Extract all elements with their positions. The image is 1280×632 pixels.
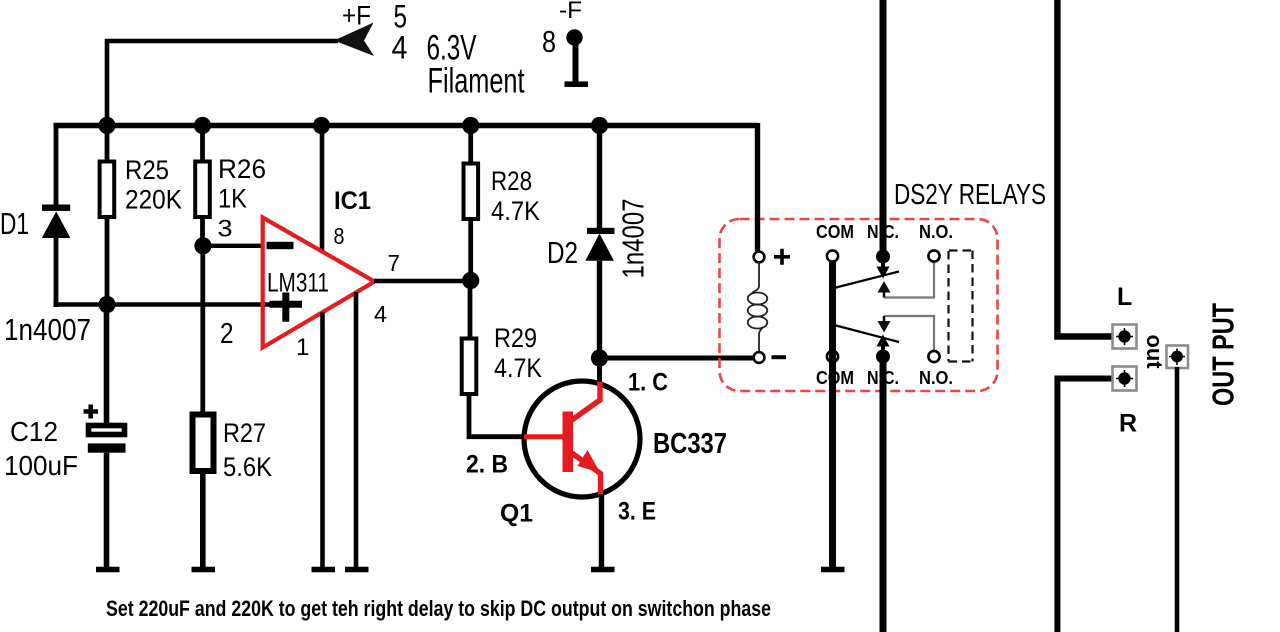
relay N.C. bottom contact dot [876,350,890,364]
svg-text:OUT PUT: OUT PUT [1206,303,1241,406]
svg-text:2: 2 [220,318,234,350]
svg-text:3. E: 3. E [618,498,656,526]
junction dot bus/R26 [194,117,211,134]
svg-text:8: 8 [542,24,556,59]
terminal -F bar [565,81,589,87]
wire op-amp output pin 7 [374,279,472,284]
resistor R28 body [464,164,479,220]
terminal out screw [1169,349,1185,366]
op-amp U1 triangle [263,218,375,348]
wire op-amp pin 1 to ground [320,313,325,570]
relay bottom contact up-arrow [881,346,885,352]
resistor R28 lead bottom [468,219,473,281]
svg-text:8: 8 [334,223,345,249]
wire L feed (thick) [1057,0,1112,337]
junction dot bus/R25 [98,117,115,134]
svg-text:1n4007: 1n4007 [616,199,651,279]
relay N.O. bottom terminal [928,351,939,362]
wire node3 to -input [203,244,262,248]
relay dashed red box [720,219,998,391]
transistor red collector lead [569,382,600,423]
wire R27 to ground [200,471,206,569]
ground bar pin1 [312,567,336,573]
wire R feed (thick) [1057,379,1112,632]
svg-text:4.7K: 4.7K [491,196,540,226]
resistor R25 body [100,162,115,218]
resistor R26 body [195,162,210,218]
relay N.O. top terminal [928,250,939,261]
node bus-left drop [54,123,59,205]
junction dot bus/R28 [462,117,479,134]
svg-text:1: 1 [296,334,309,361]
svg-text:D1: D1 [0,206,29,241]
svg-text:Set 220uF and 220K to get teh: Set 220uF and 220K to get teh right dela… [106,596,771,621]
relay coil minus terminal [754,352,765,363]
svg-text:Filament: Filament [428,62,525,101]
svg-text:R25: R25 [125,155,169,185]
terminal L screw [1116,328,1133,345]
relay COM bottom terminal [827,351,838,362]
svg-text:DS2Y RELAYS: DS2Y RELAYS [894,179,1046,211]
svg-text:7: 7 [388,250,401,276]
wire node to relay coil minus [600,356,755,361]
wire D1 anode down [54,238,59,307]
wire R29 to base corner [469,394,526,437]
diode D1 triangle [42,212,71,239]
terminal -F dot [566,29,582,45]
svg-text:4.7K: 4.7K [494,353,542,383]
svg-text:LM311: LM311 [267,268,329,298]
junction dot bus/D2 [591,117,608,134]
junction dot output node [462,272,479,289]
wire C12 top lead [104,305,110,425]
op-amp minus input bar [267,242,294,249]
svg-text:COM: COM [816,222,854,242]
capacitor C12 plus sign [84,405,99,419]
terminal R square [1113,367,1137,391]
relay mechanical link dashed [949,251,973,362]
wire C12 bottom lead [104,453,110,569]
resistor R29 body [462,339,477,395]
relay coil loops [748,262,768,352]
resistor R27 body [193,415,214,472]
svg-text:100uF: 100uF [4,450,78,481]
op-amp plus input cross [270,293,303,322]
wire N.C. bottom (thick) [880,357,887,632]
ground bar R27 [192,567,216,573]
svg-text:Q1: Q1 [500,500,533,528]
wire D2 anode to node [597,261,602,360]
svg-text:R: R [1119,410,1137,438]
wire main top bus [54,123,759,128]
svg-text:C12: C12 [10,416,58,447]
relay coil plus terminal [754,252,765,263]
wire +F horizontal feed [107,41,338,128]
diode D2 triangle [585,234,614,261]
transistor Q1 circle [524,381,640,497]
diode D1 cathode bar [42,205,70,211]
svg-text:D2: D2 [547,235,578,270]
wire op-amp pin 4 to ground [354,292,359,569]
svg-text:R27: R27 [223,418,266,448]
wire collector black [597,358,602,384]
junction dot bottom wire / C12 [98,296,115,313]
relay top contact down-arrow [881,261,885,267]
svg-text:1. C: 1. C [628,369,668,397]
ground bar C12 [96,567,120,573]
relay COM top terminal [827,250,838,261]
svg-text:BC337: BC337 [653,428,727,460]
relay minus sign [772,355,787,359]
terminal -F stem [573,42,579,84]
capacitor C12 top plate [89,426,125,435]
ground bar COM [821,567,845,573]
svg-text:2. B: 2. B [466,451,508,479]
capacitor C12 bottom plate [88,443,126,452]
svg-text:R29: R29 [494,323,537,353]
svg-text:N.C.: N.C. [867,368,899,388]
svg-text:4: 4 [374,301,387,327]
svg-text:5.6K: 5.6K [223,452,272,482]
svg-text:IC1: IC1 [334,187,371,215]
wire bottom (+input net) [54,302,303,307]
transistor emitter arrowhead [578,450,601,473]
terminal out square [1167,346,1189,369]
svg-text:N.O.: N.O. [919,222,953,242]
wire COM to ground (thick) [829,261,836,569]
ground bar pin4 [345,567,369,573]
relay bottom armature [834,325,899,342]
wire bus to D2 cathode [597,125,602,230]
terminal L square [1113,325,1137,349]
relay N.C. top contact dot [876,250,890,264]
junction dot collector node [591,349,608,366]
svg-text:4: 4 [392,30,408,66]
wire out down [1175,367,1180,632]
diode D2 cathode bar [587,228,615,234]
transistor red emitter lead [569,451,601,495]
wire bus to op-amp pin 8 [320,125,325,253]
svg-text:1n4007: 1n4007 [4,312,91,347]
svg-text:R28: R28 [491,166,532,196]
ground bar emitter [591,567,615,573]
resistor R25 lead bottom [105,217,110,305]
svg-text:3: 3 [218,216,233,243]
wire emitter to ground [599,494,604,569]
resistor R28 lead top [468,125,473,164]
svg-text:1K: 1K [218,184,247,214]
svg-text:-F: -F [559,0,582,24]
transistor red base lead [524,434,563,439]
svg-text:N.O.: N.O. [919,368,953,388]
svg-text:220K: 220K [125,185,182,215]
svg-text:R26: R26 [218,154,266,184]
resistor R25 lead top [105,125,110,162]
relay plus sign [774,249,790,265]
terminal R screw [1116,370,1133,387]
wire R26 to node 3 [200,217,205,248]
relay top armature [834,272,899,289]
svg-text:COM: COM [816,368,854,388]
svg-text:out: out [1142,335,1167,370]
relay top N.O. link (gray) with up-arrow [884,262,934,298]
svg-text:L: L [1117,283,1132,311]
resistor R26 lead top [200,125,205,162]
svg-text:+F: +F [342,1,371,31]
junction dot node 3 [194,237,211,254]
wire N.C. top feed (thick) [880,0,887,256]
transistor red base bar [563,412,574,473]
relay bottom N.O. link (gray) with down-arrow [884,316,934,351]
arrowhead +F [334,23,374,57]
wire bus to relay coil plus [755,123,760,251]
junction dot bus pin8 [313,117,330,134]
wire node to R29 [468,281,473,340]
wire node3 down to R27 [200,246,205,415]
